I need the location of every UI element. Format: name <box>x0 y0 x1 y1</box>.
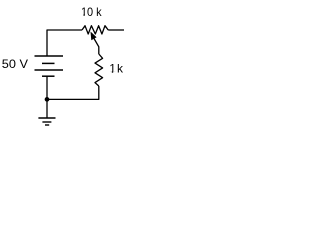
node: junction dot <box>45 97 50 102</box>
potentiometer R1 10 k body <box>82 26 108 34</box>
wire: 1 k resistor bottom to bottom rail and left to junction <box>47 86 99 99</box>
battery V1 50 V plates <box>35 56 64 76</box>
svg-text:1k: 1k <box>109 62 124 76</box>
resistor R2 1 k <box>95 54 103 86</box>
potentiometer wiper arrow shaft and wire to 1 k resistor <box>94 39 99 55</box>
potentiometer wiper arrowhead <box>91 32 97 41</box>
wire: junction down to ground <box>46 99 48 118</box>
svg-text:10 k: 10 k <box>81 5 103 19</box>
svg-text:50 V: 50 V <box>2 57 28 71</box>
wire: battery negative down to junction <box>46 76 48 99</box>
label touch-up: remove hinted foot of digit 1 in "10 k" <box>81 15 87 17</box>
ground <box>38 118 55 125</box>
wire: battery positive up and across top to potentiometer <box>47 30 82 56</box>
wire: potentiometer right terminal stub <box>108 29 124 31</box>
label touch-up: remove hinted foot of digit 1 in "1 k" <box>109 72 116 74</box>
